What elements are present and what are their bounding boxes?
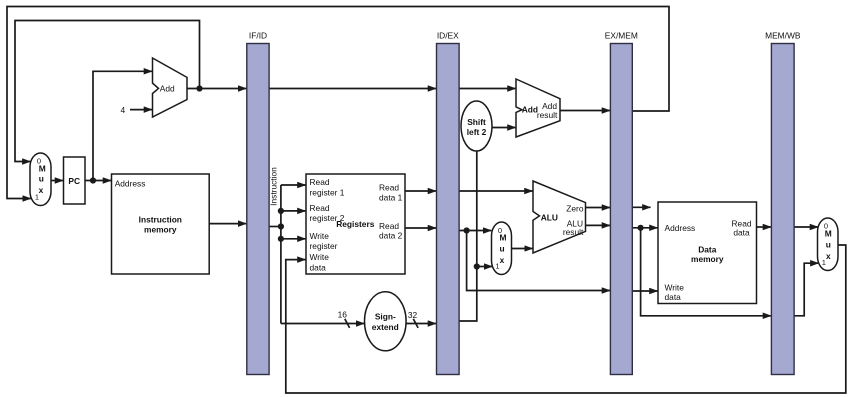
svg-text:data: data <box>665 292 682 302</box>
svg-text:IF/ID: IF/ID <box>249 31 267 41</box>
svg-text:Read: Read <box>310 177 330 187</box>
svg-text:register: register <box>310 241 338 251</box>
svg-text:x: x <box>500 255 505 265</box>
svg-text:M: M <box>39 163 46 173</box>
svg-text:M: M <box>500 233 507 243</box>
svg-text:Add: Add <box>160 84 175 94</box>
svg-text:memory: memory <box>144 224 177 234</box>
svg-text:data 1: data 1 <box>379 192 403 202</box>
svg-text:ALU: ALU <box>541 212 558 222</box>
svg-text:register 1: register 1 <box>310 187 345 197</box>
svg-text:Instruction: Instruction <box>139 214 182 224</box>
svg-text:Read: Read <box>310 203 330 213</box>
svg-text:32: 32 <box>408 310 418 320</box>
svg-text:left 2: left 2 <box>467 127 487 137</box>
svg-text:Shift: Shift <box>467 117 486 127</box>
svg-text:Add: Add <box>522 105 538 115</box>
svg-text:4: 4 <box>120 105 125 115</box>
svg-text:u: u <box>826 240 831 250</box>
svg-text:x: x <box>39 185 44 195</box>
svg-text:data: data <box>310 262 327 272</box>
svg-text:Address: Address <box>665 223 696 233</box>
svg-text:Zero: Zero <box>566 204 584 214</box>
svg-text:ID/EX: ID/EX <box>437 31 459 41</box>
svg-text:Instruction: Instruction <box>269 167 279 206</box>
svg-text:Data: Data <box>698 244 716 254</box>
svg-text:data: data <box>733 228 750 238</box>
svg-text:x: x <box>826 251 831 261</box>
svg-text:u: u <box>499 244 504 254</box>
svg-text:1: 1 <box>495 262 499 271</box>
svg-text:1: 1 <box>822 258 826 267</box>
svg-text:M: M <box>825 229 832 239</box>
svg-text:EX/MEM: EX/MEM <box>605 31 638 41</box>
svg-text:memory: memory <box>691 254 724 264</box>
svg-text:MEM/WB: MEM/WB <box>765 31 801 41</box>
svg-text:Read: Read <box>379 183 399 193</box>
svg-text:16: 16 <box>338 310 348 320</box>
svg-text:result: result <box>563 227 584 237</box>
svg-text:Address: Address <box>115 178 146 188</box>
svg-text:result: result <box>537 110 558 120</box>
svg-text:PC: PC <box>68 176 80 186</box>
svg-text:1: 1 <box>35 193 39 202</box>
svg-text:Write: Write <box>310 252 330 262</box>
svg-text:Read: Read <box>379 221 399 231</box>
svg-text:Write: Write <box>310 231 330 241</box>
svg-text:Sign-: Sign- <box>375 312 396 322</box>
svg-text:data 2: data 2 <box>379 231 403 241</box>
svg-text:u: u <box>39 173 44 183</box>
svg-text:extend: extend <box>372 322 399 332</box>
svg-text:Registers: Registers <box>336 219 375 229</box>
